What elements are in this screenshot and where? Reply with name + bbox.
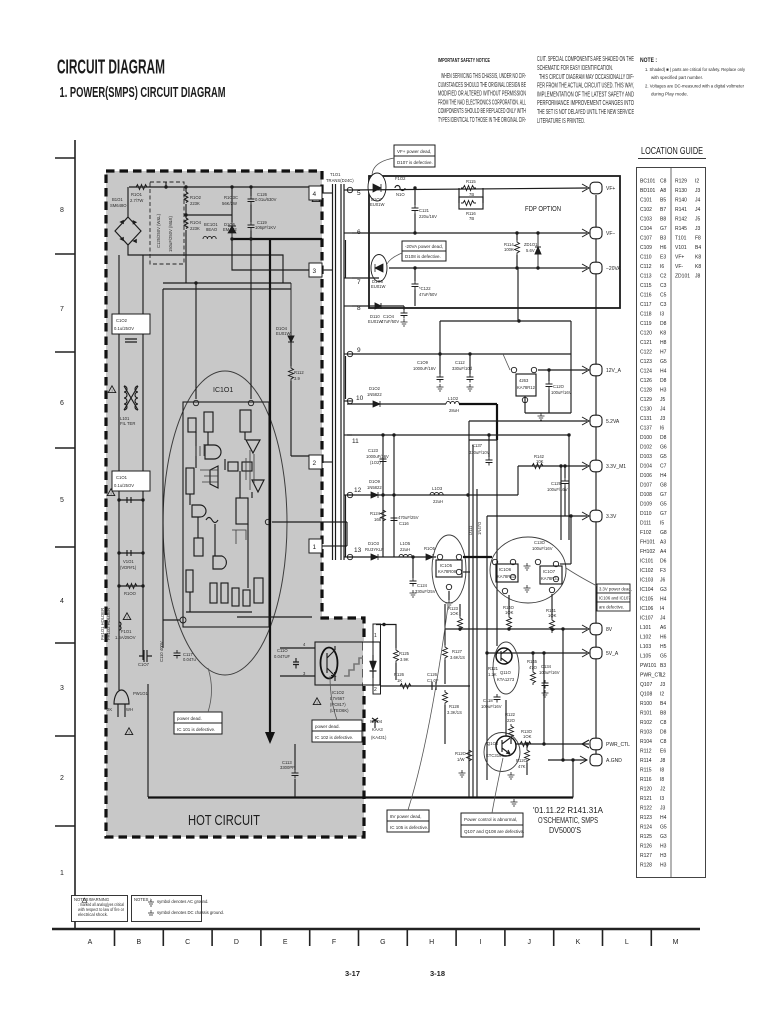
svg-text:R1O2: R1O2 xyxy=(190,195,202,200)
svg-text:3: 3 xyxy=(313,268,317,275)
svg-text:RU3YKLF: RU3YKLF xyxy=(365,547,384,552)
long vertical bus D xyxy=(486,516,488,780)
wire from AC rail to IC101 pin xyxy=(195,283,197,399)
svg-text:IC1O2: IC1O2 xyxy=(332,690,345,695)
svg-text:1K: 1K xyxy=(397,678,402,683)
svg-text:IMPLEMENTATION OF THE LATEST S: IMPLEMENTATION OF THE LATEST SAFETY AND xyxy=(537,91,634,98)
capacitor C110 xyxy=(274,648,315,676)
8V output circle xyxy=(590,623,613,635)
location guide table frame xyxy=(637,168,706,878)
wire IC105 out xyxy=(463,557,492,572)
svg-text:KTC3194: KTC3194 xyxy=(486,753,504,758)
svg-text:0.047u: 0.047u xyxy=(183,657,196,662)
svg-text:L1O2: L1O2 xyxy=(448,396,459,401)
wire rail10 xyxy=(347,403,446,405)
diode D107 xyxy=(368,173,386,207)
svg-text:47K: 47K xyxy=(518,764,526,769)
T101 secondary pin 8 xyxy=(344,305,361,312)
wire verticals left column xyxy=(118,255,120,690)
svg-text:IMPORTANT SAFETY NOTICE: IMPORTANT SAFETY NOTICE xyxy=(438,58,490,64)
svg-text:7B: 7B xyxy=(469,216,474,221)
svg-text:CUIT. SPECIAL COMPONENTS ARE S: CUIT. SPECIAL COMPONENTS ARE SHADED ON T… xyxy=(537,56,634,63)
wire 3.3VM1 drop xyxy=(517,466,519,495)
wire feed vertical b xyxy=(559,464,562,540)
svg-text:C123: C123 xyxy=(368,448,379,453)
thick vertical feed xyxy=(269,239,271,732)
wire winding return c xyxy=(345,495,347,557)
svg-text:N1O: N1O xyxy=(396,192,405,197)
wire second rail xyxy=(186,214,232,216)
svg-text:EU01W: EU01W xyxy=(276,331,290,336)
bottom ruler column letters xyxy=(88,939,679,946)
resistor R112 xyxy=(289,342,305,456)
-20VA output arrow xyxy=(582,264,589,272)
svg-text:R1O4: R1O4 xyxy=(190,220,202,225)
svg-text:220u/16V: 220u/16V xyxy=(419,214,437,219)
svg-text:R126: R126 xyxy=(394,672,405,677)
svg-text:VF+: VF+ xyxy=(606,186,615,192)
capacitor C113 xyxy=(280,744,299,797)
svg-text:1.6A/25OV: 1.6A/25OV xyxy=(115,635,136,640)
left ruler tick 4 xyxy=(55,447,75,449)
svg-text:FROM THE NAD ELECTRONICS CORPO: FROM THE NAD ELECTRONICS CORPORATION. AL… xyxy=(438,99,526,106)
capacitor C121 xyxy=(412,188,438,233)
resistor R141 xyxy=(546,594,557,633)
svg-text:THIS CIRCUIT DIAGRAM MAY OCCAS: THIS CIRCUIT DIAGRAM MAY OCCASIONALLY DI… xyxy=(539,74,634,81)
location guide right column entries xyxy=(675,179,701,280)
wire rail8 xyxy=(352,305,404,307)
inductor L105 xyxy=(399,541,412,557)
svg-text:IC 101 is defective.: IC 101 is defective. xyxy=(177,727,215,732)
svg-text:PERFORMANCE IMPROVEMENT CHANGE: PERFORMANCE IMPROVEMENT CHANGES INTO xyxy=(537,100,634,107)
capacitor C137 xyxy=(469,433,493,465)
wire rail9 xyxy=(352,353,571,355)
svg-text:3-17: 3-17 xyxy=(345,969,360,978)
svg-text:WH: WH xyxy=(126,707,133,712)
svg-text:KA78R33: KA78R33 xyxy=(541,576,560,581)
svg-text:100uF/16V: 100uF/16V xyxy=(539,670,560,675)
svg-text:LITERATURE IS PRINTED.: LITERATURE IS PRINTED. xyxy=(537,118,585,125)
svg-text:100uF/16V: 100uF/16V xyxy=(481,704,502,709)
wire rail10b xyxy=(459,404,497,440)
resistor R125 xyxy=(376,623,410,680)
warning triangle IC102 xyxy=(313,698,321,705)
capacitor C101 xyxy=(112,471,150,491)
3.3V output arrow xyxy=(582,512,589,520)
IC104 shunt ref xyxy=(370,718,387,740)
svg-text:3.9: 3.9 xyxy=(294,376,300,381)
svg-text:1: 1 xyxy=(313,544,317,551)
svg-text:C134: C134 xyxy=(541,664,552,669)
svg-text:R1O5: R1O5 xyxy=(424,546,436,551)
wire middle drop xyxy=(517,268,519,321)
svg-text:C126: C126 xyxy=(427,672,438,677)
FDP OPTION box xyxy=(369,176,620,308)
VF+ output circle xyxy=(590,182,615,194)
svg-text:KA78R33: KA78R33 xyxy=(497,574,516,579)
wire 5V_A rail xyxy=(487,652,587,654)
svg-text:C116: C116 xyxy=(399,521,409,526)
left ruler tick 7 xyxy=(55,735,75,737)
svg-text:B1O1: B1O1 xyxy=(112,197,123,202)
resistor R100 rung xyxy=(117,584,144,597)
svg-text:2K: 2K xyxy=(107,707,112,712)
svg-text:56K/2W: 56K/2W xyxy=(222,201,237,206)
long vertical bus C xyxy=(476,489,478,797)
location guide left column entries xyxy=(640,179,667,869)
warning triangle mid xyxy=(107,489,115,496)
warning triangle bottom left xyxy=(125,728,133,735)
svg-text:Q107 and Q108 are defective.: Q107 and Q108 are defective. xyxy=(464,829,524,834)
wire feed vertical a xyxy=(567,433,570,540)
svg-text:R1O1: R1O1 xyxy=(131,192,143,197)
ground under R122 xyxy=(508,772,515,779)
svg-text:3.3V_M1: 3.3V_M1 xyxy=(606,464,626,470)
svg-text:1000uF/16V: 1000uF/16V xyxy=(413,366,436,371)
left ruler tick 3 xyxy=(55,351,75,353)
resistor R121 xyxy=(488,666,499,677)
svg-text:8EAO: 8EAO xyxy=(206,227,218,232)
svg-text:2.7/7W: 2.7/7W xyxy=(130,198,143,203)
svg-text:R121: R121 xyxy=(488,666,499,671)
svg-text:22uH: 22uH xyxy=(400,547,410,552)
svg-text:C112: C112 xyxy=(455,360,465,365)
wire A.GND rail xyxy=(548,759,587,761)
svg-text:R122: R122 xyxy=(505,712,516,717)
T101 primary pin 3 xyxy=(232,239,332,277)
svg-text:MODIFIED OR ALTERED WITHOUT PE: MODIFIED OR ALTERED WITHOUT PERMISSION xyxy=(438,91,526,98)
svg-text:12: 12 xyxy=(354,487,362,494)
wire 8V rail xyxy=(445,628,587,630)
A.GND arrow xyxy=(580,756,587,764)
5V_A output circle xyxy=(590,647,619,659)
inner return wire xyxy=(147,684,149,797)
svg-text:1N5822: 1N5822 xyxy=(367,392,382,397)
thick ground rail bottom xyxy=(148,796,573,798)
A.GND output circle xyxy=(590,754,622,766)
svg-text:Q1O8: Q1O8 xyxy=(487,741,499,746)
svg-text:47uF/50V: 47uF/50V xyxy=(419,292,437,297)
svg-text:7B: 7B xyxy=(469,192,474,197)
wire branch C123 xyxy=(381,433,384,557)
wire IC107 out up xyxy=(560,514,573,564)
svg-text:PW1O1: PW1O1 xyxy=(133,691,148,696)
svg-text:R124: R124 xyxy=(370,511,381,516)
svg-text:TRANS(D24C): TRANS(D24C) xyxy=(326,178,354,183)
node rail5 junction xyxy=(413,186,416,189)
svg-text:4263: 4263 xyxy=(519,378,529,383)
svg-text:SM648O: SM648O xyxy=(110,203,127,208)
svg-text:1/W: 1/W xyxy=(457,757,464,762)
svg-text:power dead.: power dead. xyxy=(315,724,340,729)
12V_A output circle xyxy=(590,364,622,376)
svg-text:330uF/25V: 330uF/25V xyxy=(415,589,436,594)
svg-text:D1O9: D1O9 xyxy=(369,479,381,484)
svg-text:1: 1 xyxy=(374,633,377,639)
wire rail12 xyxy=(347,494,518,496)
callout power control abnormal xyxy=(461,758,524,837)
svg-text:NOTE :: NOTE : xyxy=(640,58,657,64)
svg-text:KAA3: KAA3 xyxy=(372,727,383,732)
wire bridge out rail xyxy=(128,245,283,283)
svg-text:2: 2 xyxy=(374,687,377,693)
svg-text:C13O: C13O xyxy=(534,540,546,545)
svg-text:223K: 223K xyxy=(190,201,200,206)
resistor R123 xyxy=(448,604,463,631)
svg-text:CUMSTANCES SHOULD THE ORIGINAL: CUMSTANCES SHOULD THE ORIGINAL DESIGN BE xyxy=(438,82,526,89)
svg-text:DV5000'S: DV5000'S xyxy=(549,826,581,835)
transistor Q108 xyxy=(484,733,520,772)
wire rail7 -20VA xyxy=(352,277,379,279)
callout 3.3V power dead xyxy=(566,568,632,611)
warning triangle L101 xyxy=(108,386,116,393)
resistor R103 xyxy=(222,187,238,222)
fuse F101 xyxy=(115,622,136,640)
wire loop rail xyxy=(163,282,291,284)
svg-text:F1O2: F1O2 xyxy=(395,176,406,181)
svg-text:0.1u/25OV: 0.1u/25OV xyxy=(114,326,134,331)
legend box notes warning xyxy=(72,896,128,922)
3.3V output circle xyxy=(590,510,617,522)
svg-text:100K: 100K xyxy=(504,247,514,252)
callout -20VA power dead xyxy=(387,241,446,264)
output bus vertical xyxy=(595,195,597,755)
capacitor C123 xyxy=(366,448,389,465)
svg-text:12V_A: 12V_A xyxy=(606,368,622,374)
callout power dead IC102 xyxy=(312,676,362,742)
wire rail11 xyxy=(347,434,569,436)
wire top rail AC xyxy=(129,187,318,193)
svg-text:IC1O7: IC1O7 xyxy=(543,569,556,574)
resistor R142 xyxy=(530,454,545,469)
svg-text:PWR_CTL: PWR_CTL xyxy=(606,742,630,748)
svg-text:VF+ power dead,: VF+ power dead, xyxy=(397,149,431,154)
node 8V junctions xyxy=(458,627,461,630)
resistor R115/R116 pair xyxy=(459,179,483,221)
text block: NOTE xyxy=(640,58,746,97)
svg-text:COMPONENTS SHOULD BE REPLACED: COMPONENTS SHOULD BE REPLACED ONLY WITH xyxy=(438,108,526,115)
svg-text:C1O1: C1O1 xyxy=(116,475,128,480)
svg-text:100uF/16V: 100uF/16V xyxy=(551,390,572,395)
svg-text:28uH: 28uH xyxy=(449,408,459,413)
wire IC101 right pin to transformer xyxy=(272,522,347,546)
svg-text:FIL TER: FIL TER xyxy=(120,421,135,426)
wire 12V block bottom xyxy=(525,413,571,420)
photo coupler pins box xyxy=(370,624,381,694)
resistor R145 xyxy=(527,651,538,685)
svg-text:0.01u/630V: 0.01u/630V xyxy=(255,197,277,202)
svg-text:'01.11.22 R141.31A: '01.11.22 R141.31A xyxy=(533,805,603,815)
ground right end xyxy=(511,799,518,806)
svg-text:1OK: 1OK xyxy=(450,611,459,616)
svg-text:R128: R128 xyxy=(449,704,460,709)
wire winding return b xyxy=(345,356,347,399)
svg-text:150uF/250V (M&X): 150uF/250V (M&X) xyxy=(168,216,173,252)
left margin ruler line xyxy=(74,140,76,929)
resistor R120 xyxy=(455,748,472,763)
svg-text:−20VA: −20VA xyxy=(606,266,621,272)
resistor R104 xyxy=(184,215,201,283)
diode D109 xyxy=(367,479,382,498)
capacitor C115 rung xyxy=(117,497,144,503)
wire 3.3V rail xyxy=(487,515,587,517)
resistor R114 xyxy=(504,233,520,268)
bottom ruler ticks xyxy=(115,929,652,946)
PWR_CTL output circle xyxy=(590,738,630,750)
3.3V_M1 output arrow xyxy=(582,462,589,470)
svg-text:C121: C121 xyxy=(419,208,430,213)
svg-text:3.3V: 3.3V xyxy=(606,514,617,520)
svg-text:C124: C124 xyxy=(417,583,428,588)
svg-text:EU01W: EU01W xyxy=(371,284,385,289)
VF+ output arrow xyxy=(582,184,589,192)
svg-text:9: 9 xyxy=(357,347,361,354)
svg-text:HOT CIRCUIT: HOT CIRCUIT xyxy=(188,812,260,829)
wire Q108 collector xyxy=(505,700,507,736)
resistor R124 xyxy=(370,493,386,523)
svg-text:R115: R115 xyxy=(466,179,476,184)
-20VA output circle xyxy=(590,262,621,274)
varistor V101 rung xyxy=(117,550,144,570)
regulator IC106 IC107 ellipse xyxy=(490,537,566,603)
VF- output circle xyxy=(590,227,615,239)
svg-text:IC 102 is defective.: IC 102 is defective. xyxy=(315,735,353,740)
svg-text:100uF/16V: 100uF/16V xyxy=(532,546,553,551)
svg-text:are defective.: are defective. xyxy=(599,605,624,610)
svg-text:ZD1O1: ZD1O1 xyxy=(524,242,538,247)
fuse F102 xyxy=(395,176,406,197)
svg-text:NOTES :: NOTES : xyxy=(134,897,151,902)
node junction top xyxy=(164,185,167,188)
capacitor C118 xyxy=(481,694,502,709)
5.2VA output arrow xyxy=(582,417,589,425)
svg-text:SCHEMATIC FOR EASY IDENTIFICAT: SCHEMATIC FOR EASY IDENTIFICATION. xyxy=(537,65,613,72)
svg-text:KTA1273: KTA1273 xyxy=(497,677,515,682)
8V output arrow xyxy=(582,625,589,633)
capacitor C107 xyxy=(138,650,152,667)
left ruler tick 6 xyxy=(55,642,75,644)
svg-text:with specified part number.: with specified part number. xyxy=(651,75,703,80)
wire to pin2 xyxy=(291,455,311,457)
svg-text:47uF/50V: 47uF/50V xyxy=(381,319,399,324)
resistor R101 xyxy=(130,185,149,204)
svg-text:WHEN SERVICING THIS CHASSIS, U: WHEN SERVICING THIS CHASSIS, UNDER NO CI… xyxy=(441,73,526,80)
resistor R122 xyxy=(505,712,516,744)
wire IC103 in xyxy=(503,354,510,370)
svg-text:3.3K/1S: 3.3K/1S xyxy=(447,710,462,715)
big loop wire xyxy=(163,289,291,648)
callout power dead IC101 xyxy=(174,668,222,734)
svg-text:22O: 22O xyxy=(507,718,516,723)
svg-text:5V_A: 5V_A xyxy=(606,651,619,657)
svg-text:C11O: C11O xyxy=(277,648,288,653)
svg-text:1N47O: 1N47O xyxy=(477,521,482,535)
wire feedback row xyxy=(381,685,471,687)
warning triangle fuse xyxy=(123,613,131,620)
diode D108 xyxy=(371,255,387,290)
svg-text:3.6K/1S: 3.6K/1S xyxy=(450,655,465,660)
svg-text:3300PF: 3300PF xyxy=(280,765,295,770)
svg-text:Q11O: Q11O xyxy=(500,670,512,675)
svg-text:KA78R08: KA78R08 xyxy=(438,569,457,574)
svg-text:A.GND: A.GND xyxy=(606,758,622,764)
svg-text:D107 is defective.: D107 is defective. xyxy=(397,160,433,165)
svg-text:4: 4 xyxy=(313,191,317,198)
capacitor C116 xyxy=(391,493,419,526)
svg-text:330uF/10V: 330uF/10V xyxy=(469,450,490,455)
T101 secondary pin 7 xyxy=(344,278,361,286)
text block: IMPORTANT SAFETY NOTICE xyxy=(438,58,526,124)
legend box notes grounds xyxy=(132,896,225,922)
capacitor C126 xyxy=(248,187,277,205)
svg-text:1. Shaded( ■ ) parts are criti: 1. Shaded( ■ ) parts are critical for sa… xyxy=(645,67,746,72)
VF- output arrow xyxy=(582,229,589,237)
resistor R102 xyxy=(184,187,201,215)
T101 secondary pin 6 xyxy=(344,229,361,236)
svg-text:EU01W: EU01W xyxy=(370,202,384,207)
svg-text:C129: C129 xyxy=(551,481,562,486)
svg-text:F1O1: F1O1 xyxy=(121,629,132,634)
left ruler row numbers xyxy=(60,207,64,877)
svg-text:IC1O6: IC1O6 xyxy=(499,567,512,572)
svg-text:2. Voltages are DC-measured wi: 2. Voltages are DC-measured with a digit… xyxy=(645,84,744,89)
HOT CIRCUIT shaded region xyxy=(106,171,364,837)
HOT CIRCUIT dashed border xyxy=(106,171,364,837)
svg-text:D111: D111 xyxy=(468,525,473,535)
resistor R140 xyxy=(503,595,515,630)
diode D103 xyxy=(365,541,384,560)
T101 secondary pin 5 xyxy=(344,187,361,197)
arrow down xyxy=(265,732,275,744)
line filter L101 xyxy=(120,386,138,426)
diode D102 xyxy=(367,386,382,407)
wire IC102 top feed xyxy=(237,616,312,618)
bottom center revision text xyxy=(533,805,603,835)
svg-text:C1O2: C1O2 xyxy=(116,318,128,323)
svg-text:symbol denotes AC ground.: symbol denotes AC ground. xyxy=(157,899,208,904)
callout 8V power dead xyxy=(387,606,448,832)
warning triangle top right xyxy=(312,195,320,202)
svg-text:C137: C137 xyxy=(472,443,483,448)
wire 8V drop xyxy=(444,604,446,629)
left ruler tick 8 xyxy=(55,825,75,827)
svg-text:FER FROM THE ACTUAL CIRCUIT US: FER FROM THE ACTUAL CIRCUIT USED. THIS W… xyxy=(537,83,634,90)
svg-text:L1O5: L1O5 xyxy=(400,541,411,546)
svg-text:470uF/25V: 470uF/25V xyxy=(398,515,419,520)
wire 5.2V feed vertical xyxy=(496,440,498,646)
capacitor C122 xyxy=(412,266,438,306)
svg-text:C1O7: C1O7 xyxy=(138,662,150,667)
svg-text:O'SCHEMATIC, SMPS: O'SCHEMATIC, SMPS xyxy=(538,816,598,825)
svg-text:electrical shock.: electrical shock. xyxy=(78,912,108,917)
callout VF+ power dead xyxy=(372,145,435,176)
svg-text:IC106 and IC107: IC106 and IC107 xyxy=(599,596,631,601)
capacitor C134 xyxy=(539,664,560,697)
wire AGND ground drop xyxy=(571,758,574,797)
svg-text:C125/250V (W&L): C125/250V (W&L) xyxy=(156,213,161,248)
capacitor C102 xyxy=(112,314,150,342)
capacitor C125 xyxy=(427,672,439,690)
svg-text:8V power dead,: 8V power dead, xyxy=(390,814,422,819)
svg-text:8V: 8V xyxy=(606,627,613,633)
bottom ruler line xyxy=(52,928,700,930)
svg-text:11: 11 xyxy=(352,438,359,445)
bridge rectifier B101 xyxy=(110,187,141,245)
12V_A output arrow xyxy=(582,366,589,374)
svg-text:FH1O2 HOLDER: FH1O2 HOLDER xyxy=(106,608,111,640)
wire bus to AGND xyxy=(561,627,564,761)
svg-text:R127: R127 xyxy=(452,649,463,654)
